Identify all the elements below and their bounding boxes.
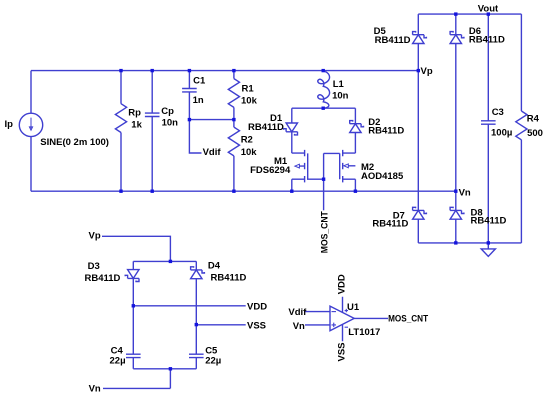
- junction node Vn: [454, 190, 457, 193]
- svg-text:22µ: 22µ: [205, 356, 221, 367]
- mosfet arrows and op-amp pin markings: [295, 164, 348, 327]
- junction node Vp: [417, 69, 420, 72]
- junction node VDD: [132, 304, 135, 307]
- svg-text:R4: R4: [527, 113, 540, 124]
- svg-text:Vn: Vn: [459, 188, 471, 199]
- op-amp V- power minus mark: [345, 326, 348, 328]
- svg-text:RB411D: RB411D: [211, 273, 247, 284]
- diode D2: [354, 108, 356, 153]
- svg-text:Vn: Vn: [293, 321, 305, 332]
- wire Vdif node: [189, 120, 234, 153]
- svg-text:RB411D: RB411D: [372, 218, 408, 229]
- junction R2 bottom rail: [232, 190, 235, 193]
- ground symbol: [481, 243, 495, 257]
- diode D5: [417, 14, 419, 71]
- svg-text:FDS6294: FDS6294: [250, 165, 291, 176]
- wire Vp to D7: [417, 71, 419, 211]
- diode D1: [291, 108, 293, 153]
- svg-text:C3: C3: [492, 107, 504, 118]
- svg-text:MOS_CNT: MOS_CNT: [319, 211, 330, 253]
- wire MOS_CNT from gates: [323, 153, 325, 210]
- svg-text:1n: 1n: [193, 95, 204, 106]
- diode D6: [455, 14, 457, 191]
- svg-text:Vp: Vp: [421, 66, 433, 77]
- op-amp power pins: [342, 297, 344, 341]
- svg-text:D3: D3: [88, 261, 100, 272]
- svg-text:RB411D: RB411D: [368, 126, 404, 137]
- svg-text:VSS: VSS: [337, 342, 348, 361]
- op-amp non-inverting input plus mark: [332, 323, 337, 328]
- svg-text:Vdif: Vdif: [203, 147, 222, 158]
- junction C1 bottom node Vdif: [188, 118, 191, 121]
- diode D7: [413, 207, 427, 219]
- svg-text:1k: 1k: [131, 120, 142, 131]
- capacitor C3: [487, 14, 489, 243]
- junction ground rail / C3: [487, 241, 490, 244]
- svg-text:10k: 10k: [241, 147, 258, 158]
- junction M1 source rail: [290, 190, 293, 193]
- resistor Rp: [120, 71, 122, 192]
- svg-text:RB411D: RB411D: [471, 216, 507, 227]
- op-amp inverting input minus mark: [332, 311, 337, 313]
- wire ground rail: [418, 242, 521, 244]
- mosfet M1 body arrow: [295, 164, 300, 168]
- wire Vout rail: [418, 13, 521, 15]
- wire bottom rail Vn: [31, 190, 456, 192]
- op-amp output wire: [354, 317, 388, 319]
- junction M1/M2 gates MOS_CNT: [322, 178, 325, 181]
- wire Vp to bridge (bottom-left block): [102, 236, 196, 261]
- svg-text:AOD4185: AOD4185: [361, 171, 404, 182]
- svg-text:C1: C1: [193, 76, 206, 87]
- svg-text:L1: L1: [333, 79, 345, 90]
- svg-text:Rp: Rp: [128, 108, 141, 119]
- svg-text:VSS: VSS: [247, 320, 266, 331]
- resistor R1: [233, 71, 235, 120]
- capacitor C4: [126, 354, 141, 357]
- svg-text:RB411D: RB411D: [469, 34, 505, 45]
- svg-text:MOS_CNT: MOS_CNT: [388, 314, 428, 325]
- svg-text:10n: 10n: [332, 90, 349, 101]
- junction D8 ground rail: [454, 241, 457, 244]
- svg-text:Cp: Cp: [161, 106, 174, 117]
- junction node VSS: [195, 323, 198, 326]
- wire VDD tap: [133, 305, 245, 307]
- svg-text:10k: 10k: [241, 95, 258, 106]
- junction bridge bottom Vn: [169, 367, 172, 370]
- op-amp U1 triangle: [330, 306, 354, 331]
- op-amp V+ power plus mark: [345, 309, 348, 312]
- svg-text:Vp: Vp: [89, 231, 101, 242]
- op-amp input wires: [305, 312, 330, 325]
- svg-text:SINE(0 2m 100): SINE(0 2m 100): [40, 137, 109, 148]
- mosfet M1: [292, 150, 324, 191]
- svg-text:R1: R1: [242, 84, 255, 95]
- resistor R4: [520, 14, 522, 243]
- svg-text:Vout: Vout: [478, 3, 499, 14]
- svg-text:D4: D4: [208, 260, 221, 271]
- junction L1 bottom / bridge top: [322, 107, 325, 110]
- capacitor Cp: [151, 71, 153, 192]
- svg-text:U1: U1: [347, 302, 360, 313]
- junction Rp top rail: [119, 69, 122, 72]
- svg-text:RB411D: RB411D: [375, 35, 411, 46]
- wire H-bridge top: [292, 107, 356, 109]
- junction R1 top rail: [232, 69, 235, 72]
- diode D4: [195, 261, 197, 354]
- capacitor C5: [189, 354, 204, 357]
- svg-text:RB411D: RB411D: [85, 273, 121, 284]
- junction C1 top rail: [188, 69, 191, 72]
- svg-text:Ip: Ip: [5, 119, 14, 130]
- junction M2 source rail: [354, 190, 357, 193]
- svg-text:VDD: VDD: [337, 274, 348, 294]
- junction L1 top rail: [322, 69, 325, 72]
- svg-text:RB411D: RB411D: [248, 122, 284, 133]
- svg-text:22µ: 22µ: [110, 356, 126, 367]
- diode D3: [132, 261, 134, 354]
- junction Cp top rail: [151, 69, 154, 72]
- junction Rp bottom rail: [119, 190, 122, 193]
- wire top rail: [31, 70, 418, 72]
- svg-text:500: 500: [527, 128, 543, 139]
- wire VSS tap: [196, 324, 245, 326]
- svg-text:LT1017: LT1017: [348, 327, 380, 338]
- junction Cp bottom rail: [151, 190, 154, 193]
- mosfet M2: [324, 150, 356, 191]
- svg-text:100µ: 100µ: [491, 128, 512, 139]
- inductor L1: [318, 71, 330, 108]
- junction C3 Vout rail: [487, 12, 490, 15]
- diode D8: [455, 191, 457, 243]
- svg-text:10n: 10n: [162, 118, 179, 129]
- resistor R2: [233, 120, 235, 192]
- junction Vp feed bridge: [169, 260, 172, 263]
- svg-text:Vn: Vn: [89, 384, 101, 395]
- current source Ip: [30, 71, 32, 192]
- svg-text:R2: R2: [241, 135, 253, 146]
- junction R1/R2 node Vdif: [232, 118, 235, 121]
- svg-text:Vdif: Vdif: [288, 307, 307, 318]
- wire bottom of bridge to Vn: [103, 369, 196, 389]
- mosfet M2 body arrow: [344, 164, 349, 168]
- capacitor C1: [188, 71, 190, 120]
- junction D6 Vout rail: [454, 12, 457, 15]
- svg-text:VDD: VDD: [247, 301, 267, 312]
